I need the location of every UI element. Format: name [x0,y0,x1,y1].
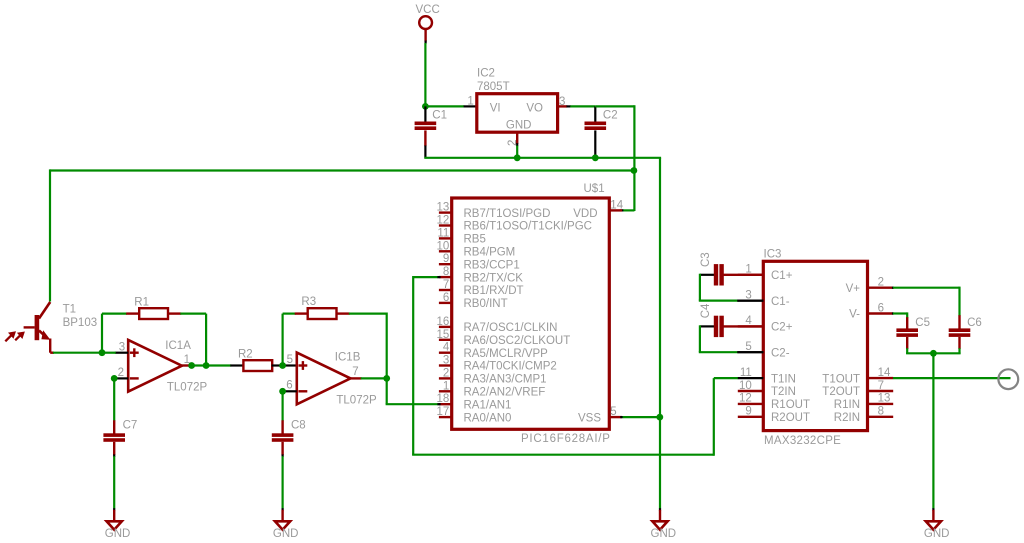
label IC1A [165,340,191,352]
label C8 [291,420,306,432]
U$1 pin 11 RB5 [437,227,486,245]
op-amp IC1B TL072P [297,353,351,405]
svg-text:C8: C8 [291,420,306,432]
svg-text:T1: T1 [63,304,76,316]
wire ground rail C1-GND-C2 [424,157,661,159]
U$1 pin 8 RB2/TX/CK [439,266,523,284]
svg-text:9: 9 [443,253,449,265]
IC3 pin 13 R1IN [834,393,893,411]
svg-text:V+: V+ [846,283,861,295]
svg-text:6: 6 [286,380,292,392]
svg-text:17: 17 [437,406,450,418]
node IC1B output junction [383,375,390,382]
svg-text:C2: C2 [603,110,618,122]
svg-text:GND: GND [506,119,532,131]
wire junction up to R1 [102,314,127,354]
U$1 pin 4 RA5/MCLR/VPP [439,342,548,360]
wire IC1B output to RA1 pin 18 [386,378,441,404]
svg-text:1: 1 [443,380,449,392]
node VSS ground junction [656,414,663,421]
IC2 pin 1 number [467,96,473,108]
node IC1B minus input junction [279,388,286,395]
svg-text:9: 9 [745,406,751,418]
svg-text:C4: C4 [700,303,712,318]
wire C4 to C2- pin [699,325,764,352]
label C5 [915,317,930,329]
svg-text:7: 7 [878,380,884,392]
svg-text:C6: C6 [967,317,982,329]
svg-text:U$1: U$1 [584,183,605,195]
wire junction to pin 3 [101,352,116,354]
label C6 [967,317,982,329]
node IC1A output net junction [203,362,210,369]
IC3 pin 9 R2OUT [738,406,810,424]
svg-text:1: 1 [467,96,473,108]
capacitor C4 [700,316,763,337]
svg-text:2: 2 [118,367,124,379]
svg-text:7: 7 [443,279,449,291]
svg-text:13: 13 [437,202,450,214]
U$1 pin 1 RA2/AN2/VREF [439,380,545,398]
svg-text:IC2: IC2 [477,68,495,80]
wire junction to IC2 pin VI [425,105,477,107]
node C5 C6 ground junction [930,350,937,357]
wire ground rail down to VSS and GND [659,158,661,418]
IC3 pin 3 C1- [738,289,790,307]
svg-text:10: 10 [437,240,450,252]
U$1 pin 7 RB1/RX/DT [439,279,524,297]
svg-text:TL072P: TL072P [336,394,377,406]
IC1B pin 7 output stub [351,366,362,378]
node IC1A minus input junction [111,375,118,382]
svg-text:2: 2 [507,140,519,146]
svg-text:RB0/INT: RB0/INT [464,298,508,310]
node IC1A plus input junction [99,349,106,356]
svg-text:R1OUT: R1OUT [771,399,810,411]
transistor T1 BP103 [24,302,54,353]
IC1A pin 2 stub [114,367,128,379]
label IC3 [764,248,782,260]
svg-text:T1OUT: T1OUT [822,373,860,385]
svg-text:7805T: 7805T [477,81,510,93]
svg-text:RB3/CCP1: RB3/CCP1 [464,259,520,271]
svg-text:RB6/T1OSO/T1CKI/PGC: RB6/T1OSO/T1CKI/PGC [464,221,592,233]
label IC1B [335,352,361,364]
wire IC1B output to junction [361,377,388,379]
svg-text:R1: R1 [134,296,149,308]
label C3 [700,252,712,267]
IC1B pin 5 number [287,354,293,366]
svg-text:C2+: C2+ [771,322,793,334]
svg-text:R2OUT: R2OUT [771,412,810,424]
svg-text:12: 12 [437,215,450,227]
svg-text:VI: VI [490,102,501,114]
svg-text:C7: C7 [123,420,138,432]
svg-text:10: 10 [739,380,752,392]
wire T1OUT to output pad [893,377,1011,379]
label TL072P for IC1A [167,381,208,393]
svg-text:11: 11 [740,367,752,379]
U$1 pin 13 RB7/T1OSI/PGD [437,202,551,220]
capacitor C6 [949,315,971,354]
node 7805 GND rail junction [514,154,521,161]
voltage regulator IC2 7805T body [477,94,558,133]
label BP103 [63,317,98,329]
wire V- to C5 [892,312,907,318]
label TL072P for IC1B [336,394,377,406]
svg-text:14: 14 [610,199,623,211]
microcontroller U$1 PIC16F628 body [452,198,610,429]
U$1 pin 9 RB3/CCP1 [439,253,520,271]
svg-text:VCC: VCC [416,4,440,16]
svg-text:V-: V- [849,309,860,321]
U$1 pin 2 RA3/AN3/CMP1 [439,367,547,385]
capacitor C3 [700,264,763,285]
wire IC1A output to R2 [192,364,232,366]
svg-text:2: 2 [878,277,884,289]
svg-text:11: 11 [437,227,449,239]
capacitor C7 [103,378,125,508]
U$1 pin 6 RB0/INT [439,292,508,310]
U$1 pin 3 RA4/T0CKI/CMP2 [439,355,557,373]
ground symbol GND for C5 C6 [924,508,950,540]
svg-text:GND: GND [105,528,131,540]
svg-text:RB2/TX/CK: RB2/TX/CK [464,272,524,284]
capacitor C1 [415,106,437,157]
wire RB2/TX to T1IN net [412,276,738,456]
svg-text:5: 5 [610,406,616,418]
svg-text:VO: VO [526,102,543,114]
label C1 [432,110,447,122]
svg-text:T2IN: T2IN [771,386,796,398]
wire pin5 node up to R3 [283,314,296,367]
svg-text:RA6/OSC2/CLKOUT: RA6/OSC2/CLKOUT [464,335,571,347]
U$1 pin 18 RA1/AN1 [437,393,512,411]
U$1 pin 10 RB4/PGM [437,240,516,258]
svg-text:8: 8 [878,406,884,418]
svg-text:RA3/AN3/CMP1: RA3/AN3/CMP1 [464,374,547,386]
IC2 pin 3 number [559,96,565,108]
svg-text:C2-: C2- [771,347,790,359]
wire VCC rail to left [50,169,634,171]
svg-text:RA5/MCLR/VPP: RA5/MCLR/VPP [464,348,549,360]
svg-text:7: 7 [352,366,358,378]
svg-text:C1: C1 [432,110,447,122]
label R1 [134,296,149,308]
label C4 [700,303,712,318]
resistor R1 [126,308,181,319]
svg-text:C5: C5 [915,317,930,329]
wire VCC to C1 junction [424,43,426,107]
node IC1A output pin junction [188,362,195,369]
resistor R2 [230,360,283,371]
IC3 pin 5 C2- [738,341,790,359]
svg-text:GND: GND [273,528,299,540]
svg-text:RA1/AN1: RA1/AN1 [464,399,512,411]
svg-text:C3: C3 [700,252,712,267]
U$1 pin 17 RA0/AN0 [437,406,512,424]
output connector pad circle [998,369,1018,389]
svg-text:RB4/PGM: RB4/PGM [464,247,516,259]
svg-text:RA7/OSC1/CLKIN: RA7/OSC1/CLKIN [464,322,558,334]
U$1 pin 12 RB6/T1OSO/T1CKI/PGC [437,215,592,233]
svg-text:RB7/T1OSI/PGD: RB7/T1OSI/PGD [464,208,551,220]
T1 light arrow 2 [15,332,25,341]
svg-text:R2: R2 [238,349,253,361]
svg-text:T1IN: T1IN [771,373,796,385]
svg-text:12: 12 [739,393,752,405]
wire R3 to IC1B output node [349,313,387,380]
svg-text:T2OUT: T2OUT [822,386,860,398]
wire VDD vertical into pin 14 [620,209,635,211]
ground symbol GND at VSS rail [651,508,677,540]
svg-text:GND: GND [651,528,677,540]
svg-text:13: 13 [878,393,891,405]
node VCC rail junction at VDD vertical [631,167,638,174]
svg-text:IC1A: IC1A [165,340,191,352]
label 7805T [477,81,510,93]
svg-text:RB1/RX/DT: RB1/RX/DT [464,285,524,297]
svg-text:VSS: VSS [578,412,601,424]
label T1 [63,304,76,316]
label U$1 [584,183,605,195]
IC2 pin 3 stub [558,105,571,107]
svg-text:6: 6 [878,302,884,314]
U$1 pin 14 VDD [573,199,623,219]
IC3 pin 6 V- [849,302,893,320]
IC1A pin 3 stub [115,341,128,353]
label IC2 [477,68,495,80]
svg-text:3: 3 [443,355,449,367]
U$1 pin 16 RA7/OSC1/CLKIN [437,316,558,334]
svg-text:R1IN: R1IN [834,399,860,411]
label MAX3232CPE [764,435,841,447]
svg-text:2: 2 [443,367,449,379]
U$1 pin 5 VSS [578,406,623,424]
svg-text:4: 4 [443,342,450,354]
U$1 pin 15 RA6/OSC2/CLKOUT [437,329,571,347]
wire C3 to C1- pin [699,274,764,301]
IC1A pin 1 output stub [182,354,192,366]
wire VCC rail down to T1 collector [49,169,51,301]
svg-text:BP103: BP103 [63,317,98,329]
svg-text:R2IN: R2IN [834,412,860,424]
svg-text:PIC16F628AI/P: PIC16F628AI/P [521,433,611,445]
svg-text:IC3: IC3 [764,248,782,260]
IC3 pin 14 T1OUT [822,367,893,385]
svg-text:GND: GND [924,528,950,540]
svg-text:5: 5 [287,354,293,366]
capacitor C2 [585,106,607,157]
svg-text:C1-: C1- [771,296,790,308]
svg-text:RA2/AN2/VREF: RA2/AN2/VREF [464,387,546,399]
svg-text:14: 14 [878,367,891,379]
label C7 [123,420,138,432]
label R3 [301,296,316,308]
op-amp IC1A TL072P [128,340,182,392]
IC1B pin 6 stub [283,380,297,392]
IC3 pin 1 C1+ [738,264,793,282]
svg-text:6: 6 [443,292,449,304]
svg-text:16: 16 [437,316,450,328]
wire ground junction down to GND [932,353,934,508]
svg-text:8: 8 [443,266,449,278]
svg-text:MAX3232CPE: MAX3232CPE [764,435,841,447]
wire R2 to IC1B plus input [283,364,297,366]
svg-text:RA4/T0CKI/CMP2: RA4/T0CKI/CMP2 [464,361,557,373]
wire ground rail to GND symbol [659,417,661,509]
node VCC-C1-IC2 junction [422,103,429,110]
svg-text:15: 15 [437,329,450,341]
T1 light arrow 1 [5,331,16,341]
IC3 pin 7 T2OUT [822,380,893,398]
svg-text:RA0/AN0: RA0/AN0 [464,412,512,424]
node IC1B plus input junction [279,362,286,369]
IC3 pin 10 T2IN [738,380,796,398]
wire C2 junction to VDD vertical [595,105,634,211]
capacitor C8 [272,391,294,508]
IC3 pin 12 R1OUT [738,393,810,411]
wire T1 emitter to IC1A noninverting input [53,352,103,354]
svg-text:IC1B: IC1B [335,352,361,364]
wire V+ to C6 [892,287,960,316]
IC3 pin 4 C2+ [738,315,793,333]
wire IC2 VO to C2 junction [570,105,595,107]
node C2 ground rail junction [592,154,599,161]
label C2 [603,110,618,122]
IC3 pin 2 V+ [846,277,894,295]
ground symbol GND for C7 [105,508,131,540]
label R2 [238,349,253,361]
svg-text:TL072P: TL072P [167,381,208,393]
IC3 pin 11 T1IN [738,367,796,385]
svg-text:VDD: VDD [573,208,597,220]
svg-text:RB5: RB5 [464,234,486,246]
resistor R3 [295,308,350,319]
IC3 pin 8 R2IN [834,406,893,424]
svg-text:3: 3 [119,341,125,353]
svg-text:R3: R3 [301,296,316,308]
wire VSS to ground rail [623,416,660,418]
ground symbol GND for C8 [273,508,299,540]
wire IC2 GND pin to ground rail [516,146,518,158]
supply symbol VCC [416,4,440,44]
label PIC16F628AI/P [521,433,611,445]
wire R1 to IC1A output node [180,314,206,366]
wire C5 C6 ground rail [906,352,961,354]
IC2 pin 2 stub (GND) [507,132,519,146]
svg-text:C1+: C1+ [771,270,793,282]
capacitor C5 [896,317,918,354]
driver IC3 MAX3232CPE body [763,261,867,430]
